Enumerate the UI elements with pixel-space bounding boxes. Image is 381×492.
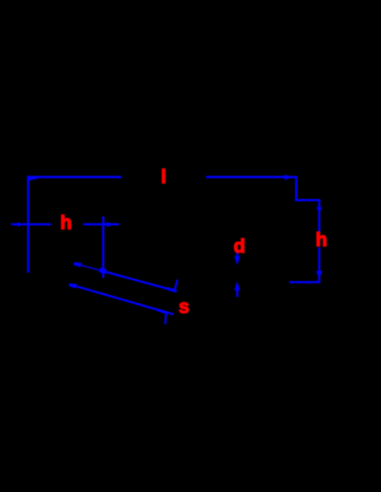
wire: right extension drop from l to jog [295,176,297,201]
wire: left extension line of l [27,176,29,273]
svg-text:d: d [234,236,246,257]
svg-text:s: s [179,297,190,318]
wire: diagonal dimension line s (upper), main [103,271,176,291]
svg-text:h: h [60,213,72,234]
wire: diagonal dimension line s (lower) [69,284,173,314]
arrowhead: start blob of upper diagonal [74,262,82,267]
arrowhead: end of lower diagonal at tick [157,308,166,314]
arrowhead: h(right) bottom, pointing down [316,271,322,279]
arrowhead: bottom of h(left) extension line [99,268,106,274]
arrowhead: h(left) outer right [107,222,115,227]
wire: right extension line of h (left) [102,216,104,278]
svg-text:l: l [161,167,166,188]
wire: top dimension line l, right segment [206,176,296,178]
arrowhead: h(right) top, pointing down [316,207,322,212]
arrowhead: d bottom, pointing up [234,281,240,290]
wire: h (left) dimension line, tail+left segment [11,223,51,225]
wire: horizontal jog at top of h (right) [295,199,320,201]
arrowhead: end of upper diagonal at tick [168,287,177,292]
tick at end of lower diagonal [165,313,166,325]
svg-text:h: h [316,230,328,251]
wire: d dimension lower stem [236,289,238,297]
wire: h (right) dimension line upper part [318,200,320,232]
wire: bottom extension line at y=282 [289,281,320,283]
arrowhead: d top, pointing down [234,256,240,265]
wire: diagonal dimension line s (upper), thin tail [74,263,103,271]
wire: top dimension line l, left segment [27,176,122,178]
wire: d dimension upper stem [236,252,238,258]
arrowhead: l right end [285,175,292,181]
arrowhead: l left end [28,176,39,181]
arrowhead: h(left) outer left [17,222,24,227]
tick at end of upper diagonal [174,280,177,292]
wire: h (left) dimension line, right segment [83,223,119,225]
wire: h (right) dimension line lower part [318,247,320,281]
arrowhead: start blob of lower diagonal [69,283,77,288]
